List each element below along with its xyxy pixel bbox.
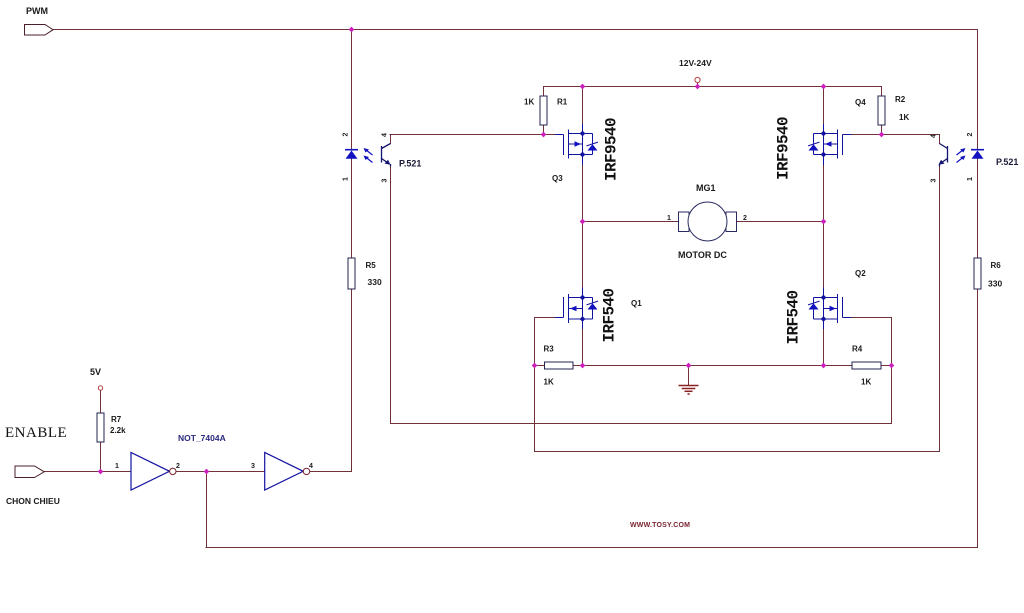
wire left vertical x351 top to LED2 bbox=[351, 30, 353, 150]
svg-text:5V: 5V bbox=[90, 367, 101, 377]
svg-text:MOTOR DC: MOTOR DC bbox=[678, 250, 727, 260]
svg-text:1: 1 bbox=[343, 177, 350, 181]
transistor Q2 IRF540 bottom-right bbox=[808, 294, 851, 323]
resistor R5 bbox=[348, 258, 355, 289]
wire R2 bottom stub bbox=[881, 125, 883, 135]
junction R3 right / Q1 source bbox=[580, 363, 586, 369]
motor right tab bbox=[726, 212, 737, 232]
light arrows of left opto bbox=[364, 148, 373, 163]
wire R1 bottom stub bbox=[543, 125, 545, 135]
motor left tab bbox=[679, 212, 690, 232]
junction ground rail / gnd stub bbox=[686, 363, 692, 369]
svg-text:CHON CHIEU: CHON CHIEU bbox=[6, 496, 60, 506]
svg-text:P.521: P.521 bbox=[399, 159, 421, 169]
svg-text:1: 1 bbox=[967, 177, 974, 181]
wire Q3 source up to rail bbox=[582, 87, 584, 125]
svg-text:3: 3 bbox=[251, 463, 255, 470]
wire right opto emitter vertical bbox=[939, 166, 941, 452]
svg-text:IRF9540: IRF9540 bbox=[603, 118, 621, 181]
wire Q2 gate horizontal bbox=[850, 317, 892, 319]
node Q4 source lead bbox=[821, 131, 827, 137]
svg-text:Q4: Q4 bbox=[855, 98, 866, 107]
blue pin stubs of MOSFETs bbox=[583, 124, 824, 329]
blue diamond junctions on MOSFET connectors bbox=[580, 131, 827, 322]
wire supply stub bbox=[697, 83, 699, 87]
resistor R3 bbox=[545, 362, 574, 369]
transistor Q3 IRF9540 top-left bbox=[555, 130, 598, 159]
svg-text:R3: R3 bbox=[544, 345, 555, 354]
wire R6 down to bottom rail bbox=[977, 290, 979, 548]
svg-text:R6: R6 bbox=[991, 261, 1002, 270]
RESISTORS bbox=[97, 96, 981, 442]
svg-text:IRF540: IRF540 bbox=[601, 288, 619, 342]
resistor R6 bbox=[974, 258, 981, 289]
Q2 pin stubs bbox=[823, 288, 825, 298]
junction motor node left bbox=[580, 219, 586, 225]
svg-text:4: 4 bbox=[382, 133, 389, 137]
wire ground rail R3 to R4 bbox=[573, 365, 852, 367]
wire top supply rail 12V-24V bbox=[544, 86, 882, 88]
wire Q1 source down to ground rail bbox=[582, 329, 584, 366]
wire motor left bbox=[583, 221, 679, 223]
inverter U1B NOT_7404A bbox=[251, 453, 313, 491]
optocoupler U_right P.521 bbox=[931, 133, 1019, 183]
gate 1 bubble bbox=[170, 468, 176, 474]
wire left LED1 to R5 bbox=[351, 159, 353, 259]
motor body circle bbox=[688, 202, 727, 241]
svg-text:2: 2 bbox=[967, 133, 974, 137]
node Q3 source lead bbox=[580, 131, 586, 137]
resistor R7 bbox=[97, 413, 104, 442]
Q3 pin stubs bbox=[582, 124, 584, 134]
svg-text:4: 4 bbox=[931, 134, 938, 138]
svg-text:PWM: PWM bbox=[26, 6, 48, 16]
svg-text:NOT_7404A: NOT_7404A bbox=[178, 433, 226, 443]
junction PWM / x351 bbox=[349, 27, 355, 33]
wire R7 to ENABLE line bbox=[100, 442, 102, 472]
port PWM bbox=[25, 6, 54, 35]
svg-text:IRF9540: IRF9540 bbox=[775, 117, 793, 180]
wire 5V stub to R7 bbox=[100, 391, 102, 413]
wire R1 top stub bbox=[543, 87, 545, 97]
junction rail / Q3 source bbox=[580, 84, 586, 90]
transistor Q4 IRF9540 top-right bbox=[808, 130, 851, 159]
svg-text:1K: 1K bbox=[899, 113, 909, 122]
wire Q2 gate vertical bbox=[891, 318, 893, 424]
svg-text:330: 330 bbox=[368, 277, 382, 287]
node Q3 drain lead bbox=[580, 152, 586, 158]
svg-text:2: 2 bbox=[743, 215, 747, 222]
power 12V-24V bbox=[679, 58, 712, 83]
svg-text:R4: R4 bbox=[852, 345, 863, 354]
inverter U1A NOT_7404A bbox=[115, 433, 226, 490]
gate 1 triangle bbox=[131, 453, 170, 491]
junction R4 right / Q2 gate bbox=[889, 363, 895, 369]
wire ground rail left lead to R3 bbox=[535, 365, 545, 367]
wire left opto emitter vertical bbox=[390, 166, 392, 424]
svg-text:1: 1 bbox=[115, 463, 119, 470]
svg-text:1K: 1K bbox=[861, 378, 871, 387]
wire left opto pin4 to Q3 gate bbox=[390, 134, 555, 136]
svg-text:MG1: MG1 bbox=[696, 183, 716, 193]
phototransistor of left opto bbox=[382, 144, 391, 167]
Q4 pin stubs bbox=[823, 124, 825, 134]
transistor Q1 IRF540 bottom-left bbox=[555, 294, 598, 323]
svg-text:330: 330 bbox=[988, 279, 1002, 289]
node Q2 drain lead bbox=[821, 295, 827, 301]
svg-text:P.521: P.521 bbox=[996, 157, 1018, 167]
node Q1 drain lead bbox=[580, 295, 586, 301]
svg-text:ENABLE: ENABLE bbox=[5, 425, 67, 441]
svg-text:1: 1 bbox=[667, 215, 671, 222]
wire ground stub bbox=[688, 366, 690, 386]
resistor value labels bbox=[110, 95, 1002, 435]
wire bottom rail bbox=[206, 547, 978, 549]
wire inverter1 out to inverter2 in bbox=[176, 471, 265, 473]
svg-text:2: 2 bbox=[176, 463, 180, 470]
svg-text:R2: R2 bbox=[895, 95, 906, 104]
resistor R2 bbox=[878, 96, 885, 125]
gate 2 triangle bbox=[265, 453, 304, 491]
wire right LED to R6 bbox=[977, 159, 979, 259]
wire PWM top rail bbox=[52, 29, 977, 31]
node Q2 source lead bbox=[821, 316, 827, 322]
wire right opto collector stub bbox=[939, 135, 941, 144]
wire Q4 gate to right opto pin4 bbox=[850, 134, 939, 136]
node Q1 source lead bbox=[580, 316, 586, 322]
svg-text:1K: 1K bbox=[544, 378, 554, 387]
wire crossover A left opto to Q2 gate bbox=[391, 423, 892, 425]
svg-text:WWW.TOSY.COM: WWW.TOSY.COM bbox=[630, 522, 690, 529]
node Q4 drain lead bbox=[821, 152, 827, 158]
junction rail / supply bbox=[695, 84, 701, 90]
svg-text:Q1: Q1 bbox=[631, 299, 642, 308]
wire R5 down to inverter output corner bbox=[351, 290, 353, 472]
svg-text:3: 3 bbox=[382, 179, 389, 183]
junction ground rail / Q2 source bbox=[821, 363, 827, 369]
junction motor node right bbox=[821, 219, 827, 225]
svg-text:R7: R7 bbox=[111, 415, 122, 424]
wire inverter2 output to x351 bbox=[310, 471, 352, 473]
wire right vertical x977 top to LED2 bbox=[977, 30, 979, 150]
svg-text:Q2: Q2 bbox=[855, 269, 866, 278]
svg-text:1K: 1K bbox=[524, 98, 534, 107]
svg-text:R5: R5 bbox=[366, 261, 377, 270]
wire Q4 source up to rail bbox=[823, 87, 825, 125]
svg-text:12V-24V: 12V-24V bbox=[679, 58, 712, 68]
wire Q4 drain down to motor node and Q2 drain bbox=[823, 165, 825, 288]
light arrows of right opto bbox=[957, 148, 966, 163]
svg-text:IRF540: IRF540 bbox=[785, 290, 803, 344]
resistor R1 bbox=[540, 96, 547, 125]
resistor R4 bbox=[852, 362, 881, 369]
svg-text:R1: R1 bbox=[557, 98, 568, 107]
junction R7 / enable wire bbox=[98, 469, 104, 475]
wire Q1 gate vertical down to crossover B bbox=[534, 318, 536, 452]
LED of left opto bbox=[345, 150, 358, 159]
svg-text:3: 3 bbox=[931, 179, 938, 183]
port CHON CHIEU (ENABLE input) bbox=[5, 425, 67, 506]
wire Q1 gate horizontal bbox=[535, 317, 556, 319]
wire crossover B to right opto pin3 bbox=[535, 451, 940, 453]
junction R1 bottom / gate wire bbox=[541, 132, 547, 138]
svg-text:2.2k: 2.2k bbox=[110, 426, 126, 435]
wire drop from inverter node x206 bbox=[206, 472, 208, 548]
svg-text:Q3: Q3 bbox=[552, 174, 563, 183]
junction rail / Q4 source bbox=[821, 84, 827, 90]
wire left opto collector stub bbox=[390, 135, 392, 144]
LED of right opto bbox=[971, 150, 984, 159]
svg-text:4: 4 bbox=[309, 463, 313, 470]
wire Q2 source down to ground rail bbox=[823, 329, 825, 366]
optocoupler U_left P.521 bbox=[343, 133, 422, 183]
motor MG1 bbox=[667, 183, 747, 260]
Q1 pin stubs bbox=[582, 288, 584, 298]
wire motor right bbox=[737, 221, 824, 223]
power 5V bbox=[90, 367, 103, 390]
junction R3 left / Q1 gate bbox=[532, 363, 538, 369]
wire ENABLE input to inverter1 bbox=[44, 471, 131, 473]
junction R2 bottom / gate wire bbox=[879, 132, 885, 138]
wire Q3 drain down to motor node bbox=[582, 165, 584, 288]
phototransistor of right opto bbox=[939, 144, 948, 167]
gate 2 bubble bbox=[303, 468, 309, 474]
svg-text:2: 2 bbox=[343, 133, 350, 137]
wire R2 top stub bbox=[881, 87, 883, 97]
junction inverter link / drop x206 bbox=[204, 469, 210, 475]
ground symbol bbox=[679, 386, 699, 395]
wire ground rail R4 right lead bbox=[881, 365, 892, 367]
